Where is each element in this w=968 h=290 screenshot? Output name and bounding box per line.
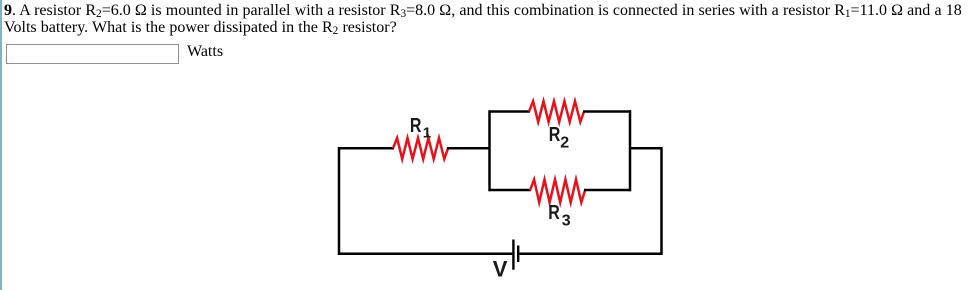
wire: box top branch left	[490, 110, 531, 113]
wire: parallel box left vertical	[488, 110, 491, 191]
resistor R2	[529, 101, 584, 122]
wire: outer right vertical	[660, 147, 663, 255]
svg-text:3: 3	[562, 212, 571, 229]
resistor R1	[393, 138, 448, 159]
wire: bottom right segment	[519, 253, 662, 256]
wire: bottom left segment	[339, 253, 512, 256]
resistor R3	[530, 180, 585, 203]
wire: R1 to parallel box	[447, 147, 490, 150]
svg-text:2: 2	[560, 135, 569, 152]
svg-text:R: R	[548, 200, 560, 223]
svg-text:R: R	[549, 122, 561, 145]
svg-text:V: V	[493, 257, 508, 282]
wire: box bottom branch left	[490, 189, 532, 192]
svg-text:1: 1	[423, 125, 431, 142]
R2 label	[549, 122, 570, 151]
circuit schematic	[330, 95, 670, 290]
answer input box	[6, 44, 179, 64]
battery V plate short	[517, 246, 519, 263]
wire: outer left vertical	[338, 147, 341, 255]
battery V plate long	[512, 240, 514, 270]
wire: parallel box right vertical	[629, 110, 632, 191]
svg-text:R: R	[410, 113, 422, 136]
wire: top wire left segment	[339, 147, 394, 150]
wire: box to outer right	[630, 147, 662, 150]
Watts label	[187, 43, 223, 61]
R3 label	[548, 200, 571, 229]
R1 label	[410, 113, 431, 141]
question text	[4, 2, 968, 36]
wire: box bottom branch right	[584, 189, 631, 192]
wire: box top branch right	[583, 110, 631, 113]
left page border	[0, 0, 2, 290]
